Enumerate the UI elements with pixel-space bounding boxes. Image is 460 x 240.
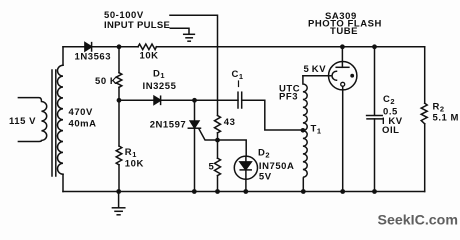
svg-text:SeekIC.com: SeekIC.com [378,213,458,229]
wire bottom rail [63,191,425,193]
wire node A horizontal (119,100) to C1 [119,99,238,101]
wire input pulse top [170,15,218,115]
node dot tube bottom [340,189,345,194]
resistor 43 [215,116,221,133]
svg-text:10K: 10K [140,50,159,61]
wire left rail bottom [62,174,64,191]
node dot 5 bottom [215,189,220,194]
wire top rail left segment [63,46,138,48]
svg-text:D2: D2 [258,148,270,160]
node dot SCR anode [192,98,197,103]
svg-text:1N3563: 1N3563 [75,52,112,63]
svg-text:C1: C1 [232,69,244,81]
transformer core [51,70,53,176]
node dot top of 50K [117,44,122,49]
resistor 10K (top) [138,44,156,50]
svg-text:115 V: 115 V [9,116,36,127]
transformer primary winding 115V [18,98,46,142]
wire C1 right to T1 tap [242,100,303,130]
svg-text:R1: R1 [125,147,137,159]
svg-text:PF3: PF3 [279,92,298,103]
capacitor C1 [238,81,242,108]
wire SCR gate [199,129,246,157]
svg-text:INPUT PULSE: INPUT PULSE [104,20,170,31]
resistor 50K [118,47,120,73]
transistor Q1 2N1597 SCR [194,100,196,121]
transformer T1 UTC PF3 winding [303,76,307,192]
wire T1 top to tube [303,75,332,77]
svg-text:470V: 470V [69,107,94,118]
node dot R1 bottom [116,189,121,194]
node dot D2 bottom [243,189,248,194]
svg-text:T1: T1 [311,124,322,136]
diode D1 1N3255 [154,96,161,104]
svg-text:5: 5 [209,162,215,173]
svg-text:5.1 M: 5.1 M [433,113,460,124]
diode 1N3563 [85,43,92,51]
svg-text:10K: 10K [125,159,144,170]
svg-text:40mA: 40mA [69,119,97,130]
svg-text:5V: 5V [259,172,272,183]
resistor R1 10K [118,100,120,146]
svg-text:IN750A: IN750A [259,161,295,172]
wire input pulse lower + ground [170,28,189,34]
svg-text:OIL: OIL [382,125,399,136]
ground (main) [112,192,124,215]
resistor R2 5.1M (right rail) [424,47,426,103]
svg-text:2N1597: 2N1597 [150,120,187,131]
ground (input pulse) [184,34,195,41]
svg-text:TUBE: TUBE [330,26,358,37]
capacitor C2 [374,47,376,116]
svg-text:C2: C2 [383,94,395,106]
svg-text:D1: D1 [153,68,165,80]
node dot T1 bottom [301,189,306,194]
node dot SCR cathode bottom [192,189,197,194]
svg-text:5 KV: 5 KV [304,64,327,75]
node dot T1 tap [301,128,306,133]
node dot gate/43/5 [215,138,220,143]
wire top rail right segment [156,46,424,48]
wire left rail top [62,47,64,65]
node dot C2 bottom [372,189,377,194]
resistor 5 [217,140,219,158]
svg-text:50 K: 50 K [95,76,117,87]
node dot 50K bottom [117,98,122,103]
tube V1 SA309 photo flash [329,47,357,192]
transformer secondary winding 470V [57,65,63,174]
diode D2 1N750A zener [234,156,257,191]
svg-text:IN3255: IN3255 [143,81,177,92]
node dot C2 top [372,44,377,49]
node dot tube top [340,44,345,49]
svg-text:43: 43 [224,117,236,128]
